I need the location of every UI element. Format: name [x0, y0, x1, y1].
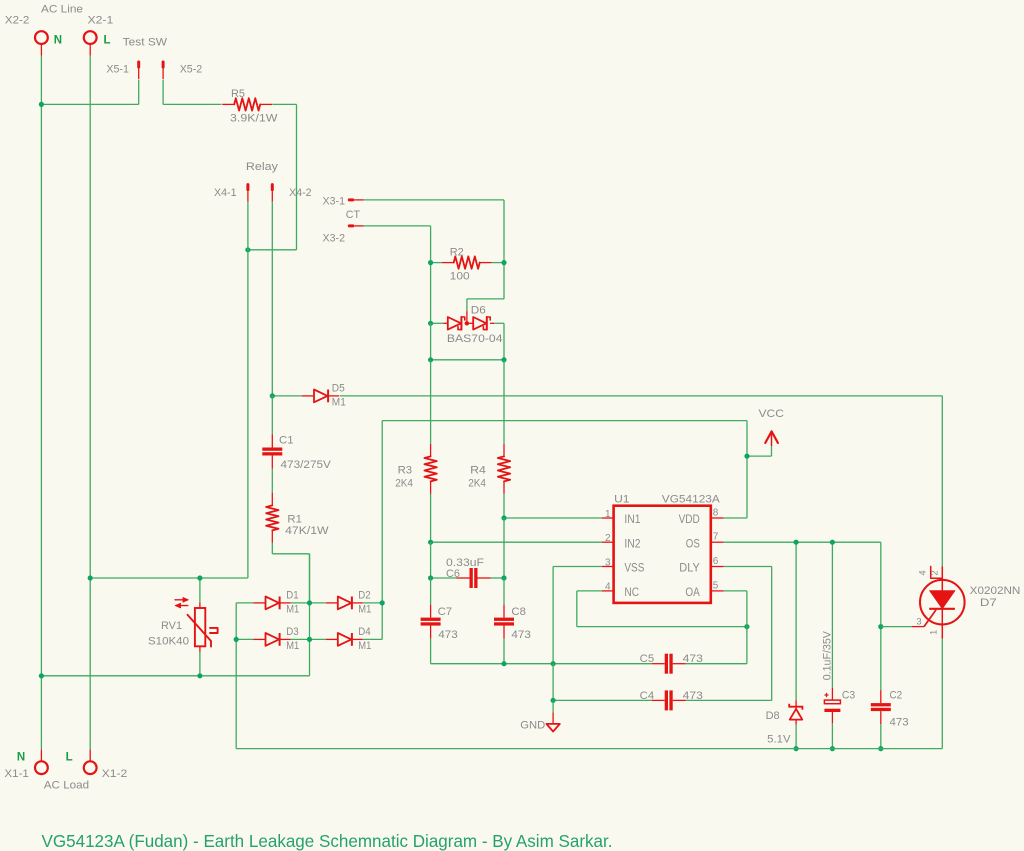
- label C2: [890, 689, 903, 701]
- node junction C6 right: [501, 575, 506, 580]
- node junction R4 bottom: [501, 515, 506, 520]
- connector pin X5-2: [162, 61, 165, 80]
- U1 pin 2 IN2: [602, 533, 641, 550]
- label R1: [287, 513, 302, 525]
- svg-text:L: L: [66, 751, 73, 763]
- svg-text:X4-2: X4-2: [289, 187, 312, 199]
- wire D6 center jog: [467, 299, 504, 311]
- svg-text:VSS: VSS: [624, 561, 644, 575]
- svg-text:C1: C1: [279, 435, 294, 447]
- power symbol VCC arrow: [765, 431, 778, 445]
- svg-text:X5-1: X5-1: [106, 64, 128, 76]
- label U1: [614, 493, 629, 505]
- node junction C3 bottom: [830, 746, 835, 751]
- label C6: [446, 568, 460, 580]
- label D3 value M1: [286, 640, 299, 652]
- svg-text:VCC: VCC: [759, 408, 784, 420]
- node junction gate tap: [878, 624, 883, 629]
- D7 pin 1 label: [929, 630, 940, 635]
- wire RV1 bottom rail: [41, 554, 309, 676]
- svg-text:OS: OS: [686, 536, 700, 550]
- svg-text:D4: D4: [358, 626, 370, 638]
- label C5: [640, 653, 655, 665]
- label AC Load: [44, 780, 89, 792]
- wire IN2 row: [431, 541, 602, 543]
- svg-text:OA: OA: [685, 585, 700, 599]
- svg-text:C7: C7: [438, 606, 453, 618]
- svg-text:BAS70-04: BAS70-04: [447, 333, 503, 345]
- svg-text:VG54123A: VG54123A: [662, 493, 721, 505]
- wire D6 right down: [503, 323, 505, 360]
- label Relay: [246, 161, 279, 173]
- svg-text:DLY: DLY: [679, 561, 700, 575]
- wire VCC arrow branch: [747, 445, 772, 456]
- svg-text:C5: C5: [640, 653, 655, 665]
- varistor RV1 S10K40: [175, 578, 218, 676]
- connector pin X4-1: [246, 183, 249, 202]
- label X4-1: [214, 187, 237, 199]
- capacitor C2 473: [871, 627, 891, 749]
- svg-text:U1: U1: [614, 493, 629, 505]
- node junction X4-1 branch: [245, 247, 250, 252]
- label D2: [358, 590, 370, 602]
- svg-text:1: 1: [929, 630, 940, 635]
- svg-text:C2: C2: [890, 689, 903, 701]
- node junction C4 left: [551, 698, 556, 703]
- svg-text:473/275V: 473/275V: [281, 459, 332, 471]
- wire bottom rail: [236, 748, 942, 750]
- svg-text:4: 4: [605, 582, 611, 593]
- svg-text:4: 4: [918, 570, 929, 575]
- label D5 value M1: [332, 397, 346, 409]
- wire D6 bottom rail: [431, 323, 504, 360]
- capacitor C3 0.1uF/35V polarized: [824, 542, 840, 748]
- label R3: [398, 464, 413, 476]
- svg-text:473: 473: [511, 629, 531, 641]
- wire R2 left: [431, 262, 442, 264]
- svg-text:R2: R2: [450, 246, 464, 258]
- label GND: [520, 720, 545, 732]
- svg-text:8: 8: [713, 507, 719, 518]
- wire L vertical (X2-1 to X1-2): [89, 56, 91, 750]
- wire IN1 row: [504, 517, 602, 519]
- wire X3-1 to R2 right column: [364, 200, 504, 299]
- svg-text:473: 473: [438, 629, 458, 641]
- wire R1 to bridge jog: [272, 543, 309, 603]
- svg-text:X3-2: X3-2: [323, 233, 346, 245]
- svg-text:CT: CT: [346, 209, 360, 221]
- U1 pin 5 OA: [685, 580, 723, 599]
- svg-text:X4-1: X4-1: [214, 187, 237, 199]
- svg-text:R4: R4: [470, 464, 486, 476]
- diode D3 bridge: [236, 633, 309, 646]
- label D4 value M1: [358, 640, 371, 652]
- label C8: [511, 606, 526, 618]
- label C2 value 473: [890, 716, 909, 728]
- label 5.1V: [767, 734, 791, 746]
- node junction N-rail: [39, 102, 44, 107]
- svg-text:X1-1: X1-1: [4, 768, 28, 780]
- label D4: [358, 626, 370, 638]
- svg-text:D8: D8: [766, 710, 780, 722]
- svg-text:C6: C6: [446, 568, 460, 580]
- label D7: [980, 597, 997, 609]
- connector X1-2: [84, 750, 97, 775]
- node junction C2 bottom: [878, 746, 883, 751]
- node junction R2 right: [501, 260, 506, 265]
- svg-text:100: 100: [450, 270, 470, 282]
- resistor R4 2K4: [498, 360, 510, 518]
- svg-text:M1: M1: [286, 604, 299, 616]
- wire C4 row: [553, 664, 772, 701]
- svg-text:D2: D2: [358, 590, 370, 602]
- svg-text:D7: D7: [980, 597, 997, 609]
- node junction R3 bottom: [428, 540, 433, 545]
- svg-text:M1: M1: [358, 604, 371, 616]
- svg-text:2K4: 2K4: [395, 478, 413, 490]
- title text: [42, 831, 613, 851]
- wire bridge left column: [235, 603, 237, 749]
- svg-text:M1: M1: [332, 397, 346, 409]
- label 0.1uF/35V rotated: [822, 631, 834, 681]
- label D1 value M1: [286, 604, 299, 616]
- D7 pin 3 label: [916, 617, 921, 628]
- svg-text:N: N: [17, 751, 25, 763]
- diode D1 bridge: [236, 597, 309, 610]
- connector pin X5-1: [137, 61, 140, 80]
- thyristor D7 X0202NN: [912, 566, 965, 638]
- wire VDD top rail: [382, 421, 747, 518]
- node junction D5 left: [270, 393, 275, 398]
- connector X2-2: [35, 31, 48, 56]
- svg-text:VG54123A (Fudan) - Earth Leaka: VG54123A (Fudan) - Earth Leakage Schemna…: [42, 831, 613, 851]
- wire NC loop: [577, 591, 747, 627]
- label R4: [470, 464, 486, 476]
- svg-text:7: 7: [713, 532, 719, 543]
- label Test SW: [123, 36, 168, 48]
- label D3: [286, 626, 298, 638]
- svg-text:D3: D3: [286, 626, 298, 638]
- capacitor C4 473: [652, 690, 686, 710]
- svg-text:3.9K/1W: 3.9K/1W: [230, 113, 278, 125]
- capacitor C5 473: [652, 654, 686, 674]
- U1 pin 3 VSS: [602, 557, 645, 574]
- svg-text:R1: R1: [287, 513, 302, 525]
- node junction N bottom rail: [39, 673, 44, 678]
- label RV1: [161, 620, 182, 632]
- resistor R1 47K/1W: [266, 493, 278, 543]
- connector pin X3-2: [348, 224, 364, 227]
- label C5 value 473: [683, 653, 703, 665]
- label X3-1: [323, 195, 346, 207]
- resistor R5: [222, 98, 272, 110]
- wire D5 row: [272, 395, 942, 397]
- wire R5 to relay branch: [248, 104, 297, 249]
- label BAS70-04: [447, 333, 503, 345]
- svg-text:M1: M1: [286, 640, 299, 652]
- label R2: [450, 246, 464, 258]
- svg-text:L: L: [104, 34, 111, 46]
- svg-text:Test SW: Test SW: [123, 36, 168, 48]
- capacitor C1 473/275V: [262, 396, 282, 493]
- wire R2 right: [492, 262, 504, 264]
- svg-text:IN1: IN1: [624, 512, 640, 526]
- label 100: [450, 270, 470, 282]
- label C7 value 473: [438, 629, 458, 641]
- svg-text:2K4: 2K4: [468, 478, 486, 490]
- label X3-2: [323, 233, 346, 245]
- resistor R2: [442, 256, 492, 268]
- wire R3 column to C6: [430, 542, 432, 578]
- svg-text:GND: GND: [520, 720, 545, 732]
- svg-text:D5: D5: [332, 383, 345, 395]
- svg-text:X0202NN: X0202NN: [970, 585, 1021, 597]
- label 3.9K/1W: [230, 113, 278, 125]
- net label L top: [104, 34, 111, 46]
- label X2-1: [88, 15, 114, 27]
- svg-text:6: 6: [713, 556, 719, 567]
- node junction D8 top: [794, 540, 799, 545]
- net label N top: [54, 34, 62, 46]
- D7 pin 2 label: [930, 570, 941, 575]
- wire OA down: [724, 591, 747, 664]
- node junction R2 left: [428, 260, 433, 265]
- node junction D1-D2 mid: [307, 600, 312, 605]
- label X1-1: [4, 768, 28, 780]
- diode D5: [302, 390, 339, 403]
- svg-text:R3: R3: [398, 464, 413, 476]
- label D1: [286, 590, 298, 602]
- svg-text:C3: C3: [842, 689, 855, 701]
- svg-text:X5-2: X5-2: [180, 64, 203, 76]
- node junction D2 right: [380, 600, 385, 605]
- wire RV1 top rail: [90, 577, 248, 579]
- node junction D8 bottom: [794, 746, 799, 751]
- node junction C6 left: [428, 575, 433, 580]
- resistor R3 2K4: [424, 360, 436, 542]
- svg-text:3: 3: [605, 557, 611, 568]
- node junction VSS rail: [551, 661, 556, 666]
- label VG54123A: [662, 493, 721, 505]
- svg-text:5: 5: [713, 580, 719, 591]
- label C1: [279, 435, 294, 447]
- U1 pin 6 DLY: [679, 556, 723, 575]
- svg-text:RV1: RV1: [161, 620, 182, 632]
- svg-text:2: 2: [930, 570, 941, 575]
- label 0.33uF: [446, 557, 484, 569]
- svg-text:S10K40: S10K40: [148, 636, 189, 648]
- node junction D6 left: [428, 321, 433, 326]
- node junction RV1 bottom: [197, 673, 202, 678]
- svg-text:NC: NC: [624, 585, 639, 599]
- capacitor C8 473: [494, 578, 514, 664]
- node junction VCC branch: [744, 454, 749, 459]
- connector X1-1: [35, 750, 48, 775]
- svg-text:473: 473: [683, 690, 703, 702]
- wire N vertical (X2-2 to X1-1): [40, 56, 42, 750]
- wire thyristor column: [941, 396, 943, 749]
- svg-text:X2-1: X2-1: [88, 15, 114, 27]
- svg-text:VDD: VDD: [679, 512, 700, 526]
- label D8: [766, 710, 780, 722]
- svg-text:N: N: [54, 34, 62, 46]
- svg-text:D1: D1: [286, 590, 298, 602]
- net label N bottom: [17, 751, 25, 763]
- label D6: [471, 304, 486, 316]
- wire VSS row: [553, 567, 602, 664]
- U1 pin 1 IN1: [602, 509, 641, 526]
- diode D2 bridge: [310, 597, 383, 610]
- svg-text:AC Load: AC Load: [44, 780, 89, 792]
- node junction RV1 top: [197, 575, 202, 580]
- zener diode D8 5.1V: [789, 542, 802, 748]
- svg-text:3: 3: [916, 617, 921, 628]
- label VCC: [759, 408, 784, 420]
- label X2-2: [5, 15, 29, 27]
- svg-text:5.1V: 5.1V: [767, 734, 791, 746]
- label CT: [346, 209, 360, 221]
- label AC Line: [41, 3, 83, 15]
- svg-text:C8: C8: [511, 606, 526, 618]
- svg-text:47K/1W: 47K/1W: [285, 525, 329, 537]
- svg-text:R5: R5: [231, 88, 245, 100]
- diode D4 bridge: [310, 633, 383, 646]
- wire DLY down: [724, 567, 772, 701]
- label D5: [332, 383, 345, 395]
- svg-text:X2-2: X2-2: [5, 15, 29, 27]
- label C4: [640, 690, 655, 702]
- label X5-2: [180, 64, 203, 76]
- connector X2-1: [84, 31, 97, 56]
- wire test-switch rail: [41, 80, 296, 105]
- svg-text:IN2: IN2: [624, 536, 640, 550]
- capacitor C7 473: [421, 578, 441, 664]
- node junction rail left: [428, 357, 433, 362]
- label X4-2: [289, 187, 312, 199]
- wire R4 column to C6: [503, 518, 505, 578]
- label 473/275V: [281, 459, 332, 471]
- node junction D3 left: [234, 637, 239, 642]
- op-amp U1 VG54123A body: [614, 506, 711, 603]
- U1 pin 8 VDD: [679, 507, 724, 526]
- label R3 value 2K4: [395, 478, 413, 490]
- U1 pin 4 NC: [602, 582, 639, 599]
- node junction NC-OA loop: [744, 624, 749, 629]
- label C8 value 473: [511, 629, 531, 641]
- label D2 value M1: [358, 604, 371, 616]
- svg-text:2: 2: [605, 533, 611, 544]
- svg-text:473: 473: [890, 716, 909, 728]
- wire X4-1 down: [247, 202, 249, 578]
- wire VDD to VCC: [724, 517, 747, 519]
- wire rail 663 row: [431, 663, 747, 665]
- connector pin X4-2: [271, 183, 274, 202]
- label C4 value 473: [683, 690, 703, 702]
- label C3: [842, 689, 855, 701]
- wire bridge right column: [381, 421, 383, 640]
- svg-text:X1-2: X1-2: [102, 768, 128, 780]
- svg-text:D6: D6: [471, 304, 486, 316]
- svg-text:0.1uF/35V: 0.1uF/35V: [822, 631, 834, 681]
- label R4 value 2K4: [468, 478, 486, 490]
- node junction L rail: [88, 575, 93, 580]
- label 47K/1W: [285, 525, 329, 537]
- label R5: [231, 88, 245, 100]
- wire OS row: [724, 542, 881, 626]
- node junction rail right: [501, 357, 506, 362]
- node junction D3-D4 mid: [307, 637, 312, 642]
- wire X4-2 down: [271, 202, 273, 396]
- svg-text:Relay: Relay: [246, 161, 279, 173]
- label S10K40: [148, 636, 189, 648]
- label C7: [438, 606, 453, 618]
- svg-text:473: 473: [683, 653, 703, 665]
- svg-text:AC Line: AC Line: [41, 3, 83, 15]
- net label L bottom: [66, 751, 73, 763]
- label X5-1: [106, 64, 128, 76]
- U1 pin 7 OS: [686, 532, 724, 551]
- wire thyristor gate: [881, 626, 912, 628]
- connector pin X3-1: [348, 198, 364, 201]
- svg-text:M1: M1: [358, 640, 371, 652]
- node junction C8 bottom: [501, 661, 506, 666]
- label X0202NN: [970, 585, 1021, 597]
- svg-text:X3-1: X3-1: [323, 195, 346, 207]
- ground symbol GND: [546, 700, 559, 731]
- node junction C3 top: [830, 540, 835, 545]
- svg-text:C4: C4: [640, 690, 655, 702]
- wire X3-2 to R2 left column: [364, 226, 431, 323]
- diode D6 BAS70-04 dual schottky: [431, 311, 504, 330]
- capacitor C6 0.33uF: [431, 568, 504, 588]
- svg-text:1: 1: [605, 509, 611, 520]
- label X1-2: [102, 768, 128, 780]
- D7 pin 4 label: [918, 570, 929, 575]
